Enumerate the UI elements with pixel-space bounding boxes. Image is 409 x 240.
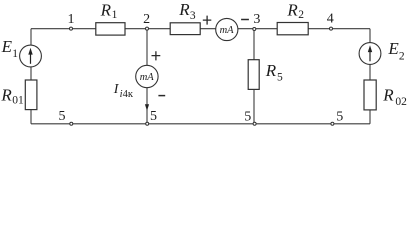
svg-text:2: 2 <box>143 12 150 27</box>
resistor R02 <box>364 80 407 110</box>
svg-text:5: 5 <box>277 72 283 84</box>
svg-text:E: E <box>1 37 13 56</box>
label - (ammeter U1 right) <box>241 19 249 21</box>
svg-text:2: 2 <box>399 51 405 63</box>
resistor R1 <box>96 0 125 35</box>
label - (ammeter U2) <box>158 95 165 97</box>
wire R5 branch node3 to node5 <box>253 29 255 124</box>
svg-text:R: R <box>265 61 277 80</box>
svg-text:mA: mA <box>140 72 155 83</box>
svg-text:R: R <box>286 0 298 19</box>
node 4 <box>327 12 334 31</box>
wire middle branch node2 to node5 <box>146 29 148 124</box>
svg-text:5: 5 <box>244 109 251 124</box>
wire top rail (node1-node2-node3-node4) <box>31 28 370 30</box>
svg-text:5: 5 <box>150 109 157 124</box>
svg-text:R: R <box>178 0 190 19</box>
svg-text:R: R <box>382 86 394 105</box>
svg-text:1: 1 <box>12 48 18 60</box>
svg-text:mA: mA <box>220 25 235 36</box>
svg-text:3: 3 <box>253 12 260 27</box>
node 5a (bottom left) <box>59 109 73 125</box>
wire left branch E1/R01 <box>30 29 32 124</box>
node 3 <box>253 12 261 31</box>
node 1 <box>68 12 75 30</box>
node 5b (bottom middle) <box>146 109 157 126</box>
svg-text:01: 01 <box>12 94 24 106</box>
resistor R01 <box>0 80 37 110</box>
svg-text:2: 2 <box>298 9 304 21</box>
resistor R5 <box>248 60 283 90</box>
svg-text:R: R <box>0 85 12 104</box>
wire bottom rail (node 5) <box>31 123 370 125</box>
svg-text:4к: 4к <box>123 89 134 100</box>
svg-text:3: 3 <box>190 10 196 22</box>
node 5c (bottom, under node3) <box>244 109 256 125</box>
ammeter U1 (mA, top) <box>216 18 238 40</box>
svg-text:1: 1 <box>68 12 75 27</box>
resistor R3 <box>170 0 200 35</box>
svg-text:R: R <box>100 0 112 19</box>
svg-text:4: 4 <box>327 12 334 27</box>
resistor R2 <box>277 0 308 34</box>
label + (ammeter U2) <box>152 51 161 60</box>
source E1 <box>1 37 42 67</box>
svg-text:5: 5 <box>59 109 66 124</box>
wire right branch E2/R02 <box>369 29 371 124</box>
svg-text:1: 1 <box>112 9 118 21</box>
node 2 <box>143 12 150 30</box>
current arrow I (middle branch) <box>145 104 149 111</box>
ammeter U2 (mA, middle) <box>136 65 158 87</box>
label + (ammeter U1 left) <box>203 16 212 25</box>
svg-text:E: E <box>387 39 399 58</box>
source E2 <box>359 39 405 64</box>
svg-text:02: 02 <box>395 96 407 108</box>
svg-text:5: 5 <box>336 110 343 125</box>
node 5d (bottom right) <box>331 110 343 126</box>
